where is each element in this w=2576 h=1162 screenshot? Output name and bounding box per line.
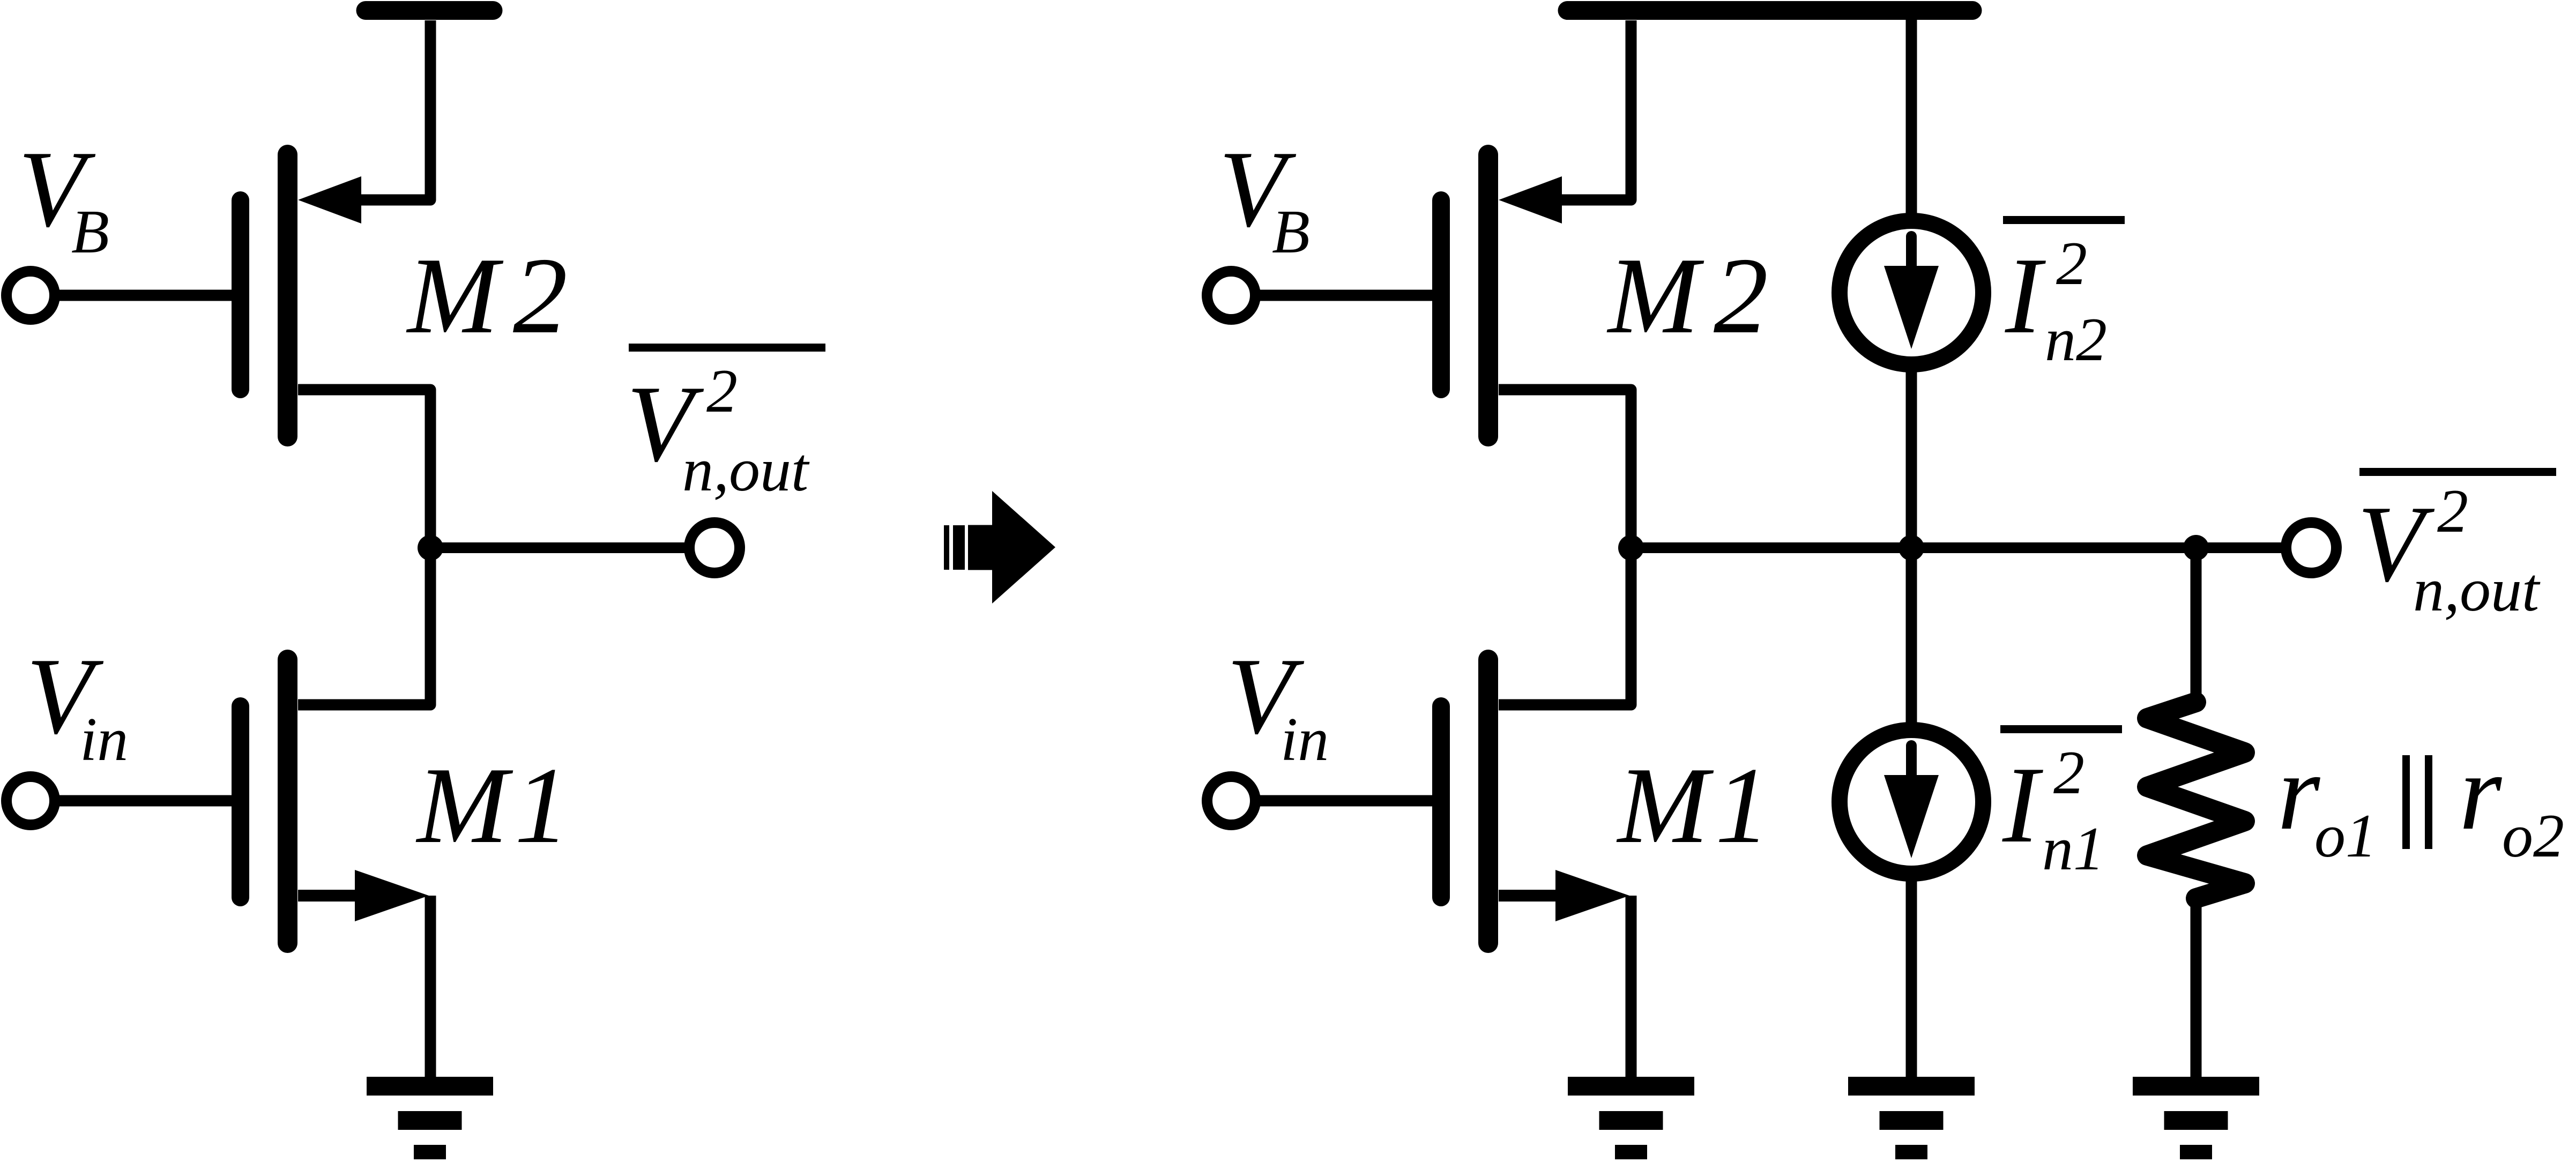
svg-text:2: 2: [2056, 229, 2087, 298]
svg-text:I: I: [2005, 235, 2046, 356]
svg-text:in: in: [1280, 705, 1329, 774]
svg-text:in: in: [80, 705, 128, 774]
svg-text:n1: n1: [2042, 815, 2104, 883]
svg-text:B: B: [1272, 198, 1310, 266]
svg-text:n,out: n,out: [2413, 556, 2541, 624]
svg-text:n,out: n,out: [682, 436, 810, 504]
svg-text:I: I: [2002, 744, 2043, 866]
svg-text:n2: n2: [2045, 306, 2107, 374]
svg-text:o1: o1: [2314, 802, 2377, 870]
svg-text:r: r: [2459, 732, 2502, 853]
svg-text:M2: M2: [406, 235, 582, 356]
svg-text:2: 2: [2053, 739, 2084, 807]
svg-text:M1: M1: [1616, 745, 1776, 866]
svg-text:o2: o2: [2502, 802, 2564, 870]
svg-text:B: B: [71, 198, 109, 266]
svg-text:2: 2: [706, 357, 738, 426]
svg-text:M1: M1: [415, 745, 576, 866]
svg-text:M2: M2: [1606, 235, 1783, 356]
svg-text:2: 2: [2437, 477, 2468, 546]
svg-text:r: r: [2277, 732, 2320, 853]
